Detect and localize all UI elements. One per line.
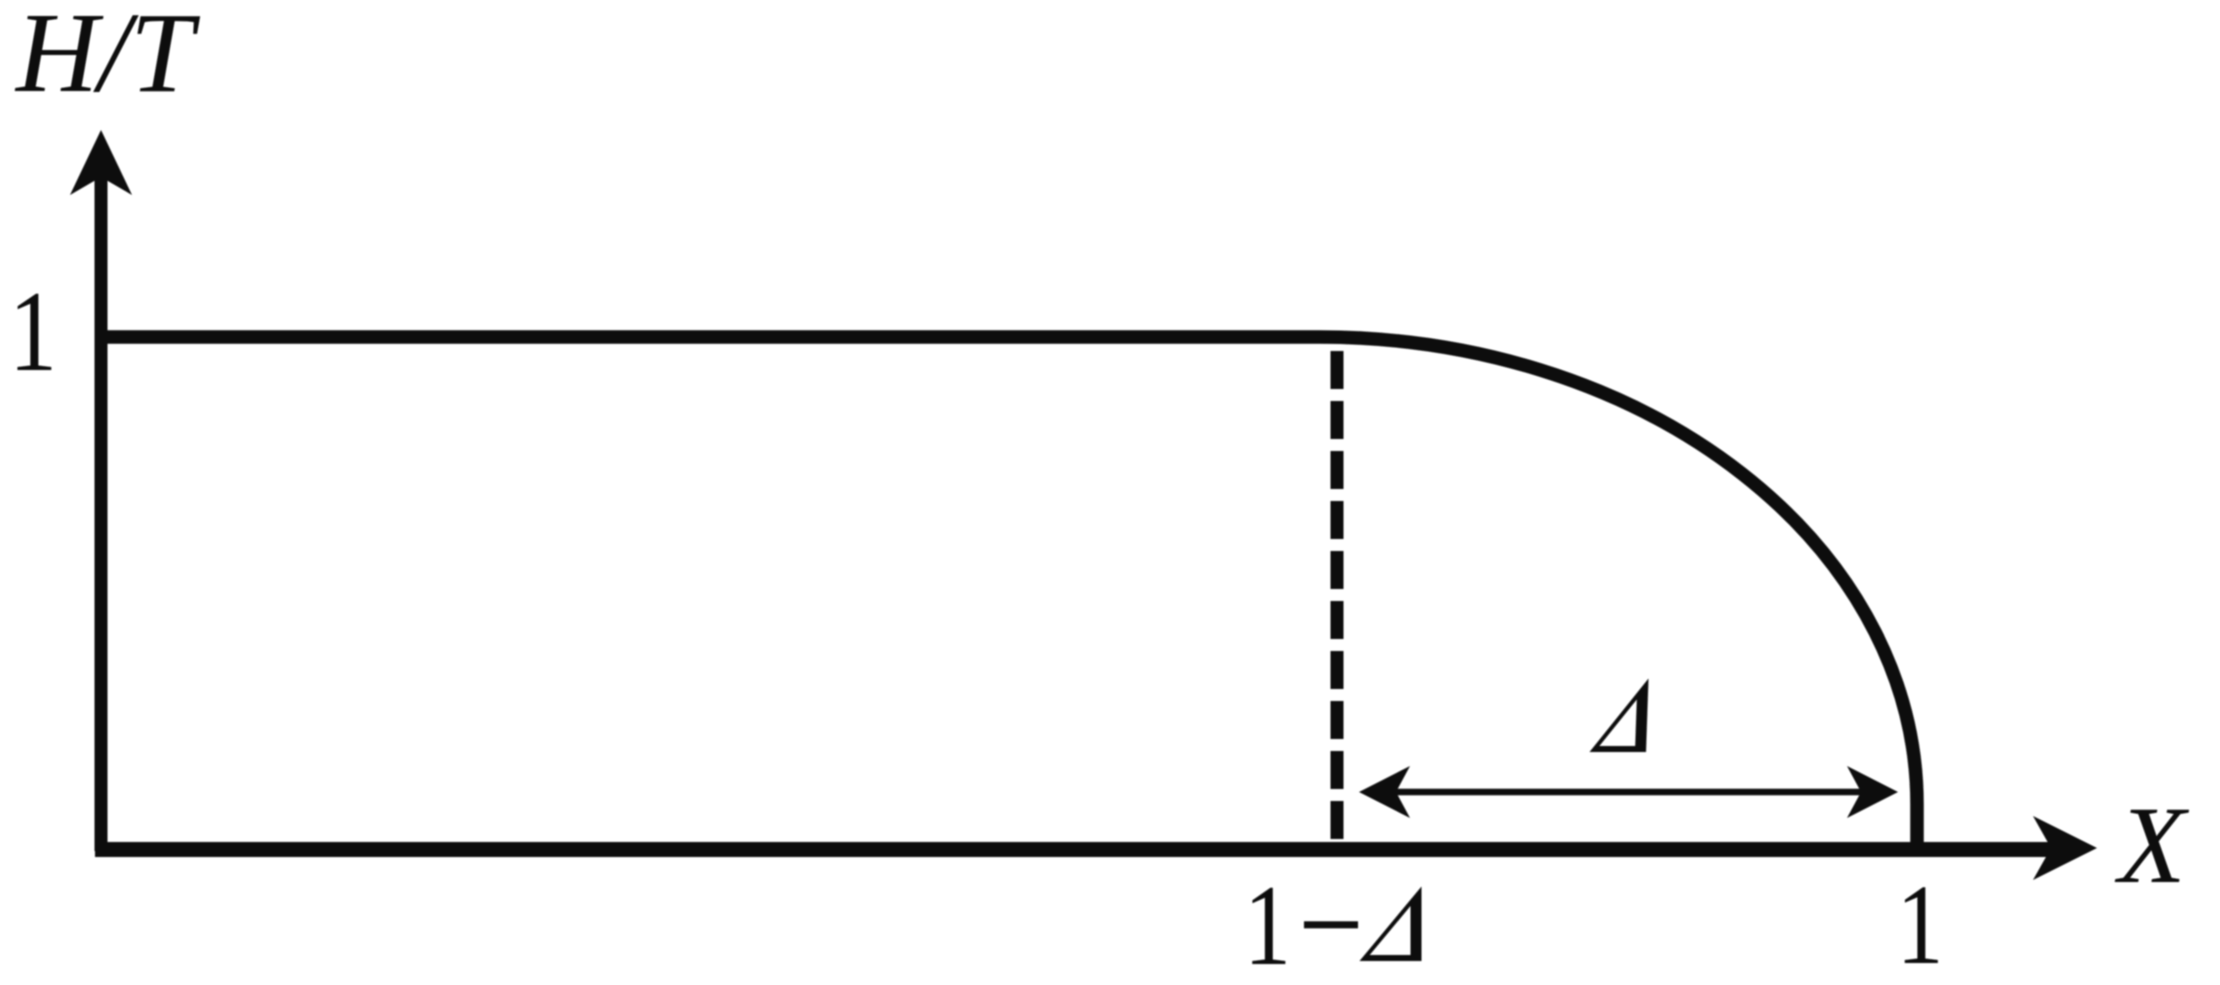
y-axis — [95, 172, 108, 851]
svg-text:X: X — [2114, 784, 2189, 906]
svg-text:1: 1 — [1244, 862, 1291, 985]
svg-text:H/T: H/T — [14, 0, 201, 116]
double arrow left head — [1359, 766, 1410, 818]
x-axis arrowhead — [2033, 816, 2097, 880]
svg-text:1: 1 — [1897, 861, 1944, 985]
y-axis arrowhead — [70, 130, 132, 195]
dashed line at x = 1-Delta — [1331, 351, 1344, 857]
Delta label above arrow — [1590, 679, 1649, 753]
double arrow shaft — [1368, 789, 1890, 796]
double arrow right head — [1847, 766, 1898, 818]
x-axis — [95, 842, 2056, 857]
Delta glyph in 1-Delta label — [1360, 887, 1422, 962]
curve H/T profile: flat then quarter ellipse then vertical drop — [98, 337, 1917, 849]
svg-text:1: 1 — [9, 268, 57, 396]
minus sign in 1-Delta label — [1304, 921, 1358, 928]
